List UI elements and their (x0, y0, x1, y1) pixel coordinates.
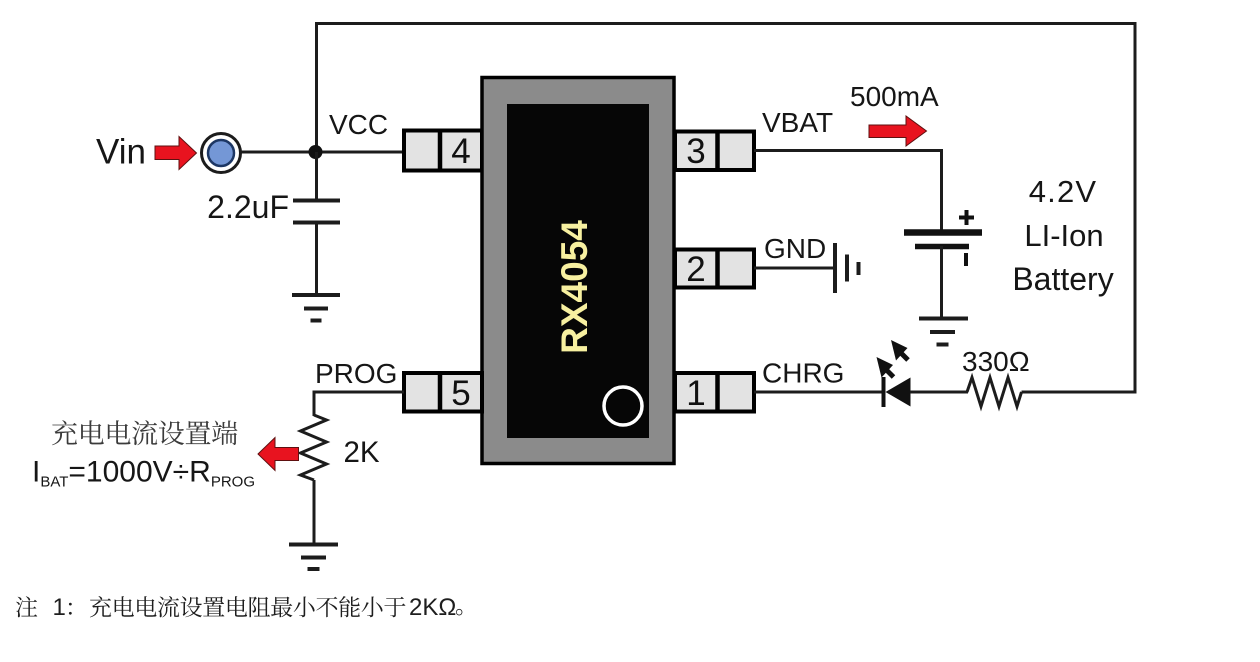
IC U1 RX4054 body (482, 78, 674, 464)
label 4.2V LI-Ion Battery (1012, 174, 1113, 297)
ground below R1 (289, 545, 338, 570)
svg-text:LI-Ion: LI-Ion (1024, 218, 1103, 253)
note colon (69, 603, 72, 615)
svg-text:Battery: Battery (1012, 261, 1113, 297)
capacitor C1 plates (293, 201, 340, 223)
svg-text:4: 4 (451, 132, 470, 171)
svg-text:2KΩ: 2KΩ (409, 594, 456, 621)
battery minus tick (964, 253, 968, 266)
wire resistor R1 to ground (313, 480, 316, 545)
wire VCC loop from input node to top rail, right rail down to LED branch (317, 24, 1136, 393)
wire pin1 to LED (754, 391, 883, 394)
wire pin3 to battery (754, 151, 942, 234)
svg-text:VCC: VCC (329, 109, 388, 140)
connector J1 input jack (202, 134, 241, 173)
label chinese: charge current set terminal (52, 420, 237, 445)
ground below battery (919, 319, 968, 345)
pin 2 (GND) box (675, 248, 754, 290)
svg-text:500mA: 500mA (850, 81, 939, 112)
note period (456, 609, 462, 616)
wire capacitor to ground (315, 222, 318, 295)
LED emission arrows (877, 340, 909, 378)
LED D1 cathode bar (882, 377, 886, 407)
resistor R2 330ohm zigzag (967, 378, 1022, 407)
svg-text:2: 2 (686, 250, 705, 289)
ground below capacitor (292, 295, 340, 321)
ground right of pin2 (rotated) (835, 243, 859, 293)
svg-text:GND: GND (764, 233, 826, 264)
svg-text:1: 1 (53, 594, 66, 621)
battery BT1 plates (904, 233, 982, 247)
svg-text:RX4054: RX4054 (554, 220, 595, 354)
svg-text:2K: 2K (344, 436, 380, 469)
note chinese body (90, 596, 406, 617)
wire Vin connector to VCC node (240, 151, 404, 154)
wire LED to resistor R2 (910, 391, 968, 394)
wire VCC node down to capacitor (315, 152, 318, 201)
note line: zhu 1 (16, 596, 37, 617)
LED D1 triangle (886, 378, 911, 407)
pin 3 (VBAT) box (675, 130, 754, 173)
svg-text:VBAT: VBAT (762, 107, 833, 138)
svg-text:PROG: PROG (315, 358, 397, 389)
svg-text:1: 1 (686, 374, 705, 413)
svg-text:CHRG: CHRG (762, 358, 844, 389)
resistor R1 2K zigzag (301, 415, 327, 480)
svg-text:330Ω: 330Ω (962, 346, 1030, 377)
svg-text:2.2uF: 2.2uF (207, 189, 289, 225)
wire resistor R2 to right rail (1022, 391, 1137, 394)
svg-text:3: 3 (686, 132, 705, 171)
pin 5 (PROG) box (404, 371, 482, 414)
pin 4 (VCC) box (404, 129, 482, 173)
arrow red input Vin (155, 137, 197, 170)
wire pin2 to ground (754, 267, 835, 270)
wire battery to ground (940, 246, 943, 319)
formula IBAT=1000V/RPROG (32, 456, 255, 491)
IC pin-1 marker circle (604, 387, 642, 425)
svg-text:4.2V: 4.2V (1029, 174, 1098, 209)
arrow red PROG setting (left) (258, 438, 299, 471)
svg-text:5: 5 (451, 374, 470, 413)
arrow red 500mA charge current (869, 116, 927, 146)
node VCC junction dot (309, 145, 323, 159)
wire pin5 to resistor R1 (314, 392, 404, 416)
pin 1 (CHRG) box (675, 371, 754, 414)
svg-text:Vin: Vin (96, 133, 146, 172)
battery plus sign (959, 210, 974, 225)
